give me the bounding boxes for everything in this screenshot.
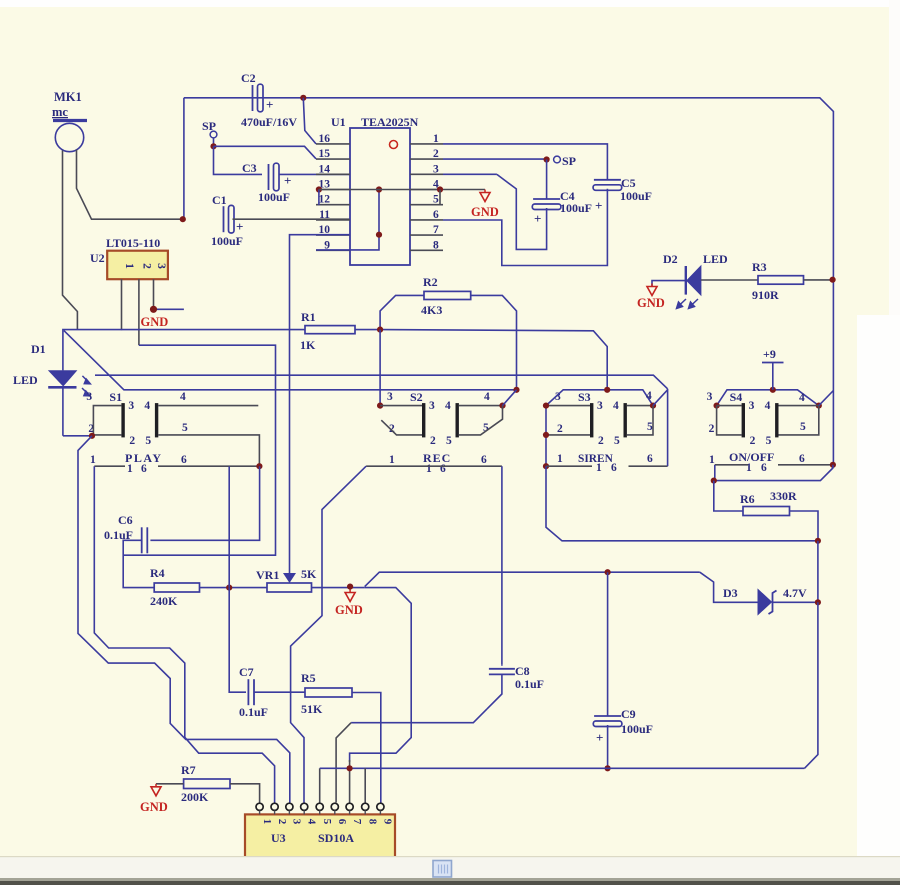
svg-text:3: 3 bbox=[597, 400, 603, 412]
switch S1 left bar bbox=[121, 403, 124, 437]
junction S1 pin5/6 bbox=[256, 463, 262, 469]
U3 pin 6 stub bbox=[334, 810, 336, 814]
svg-text:C6: C6 bbox=[118, 513, 133, 527]
U3 pin 1 stub bbox=[259, 810, 261, 814]
wire R2 left down to S2 bbox=[379, 330, 381, 406]
potentiometer VR1 body bbox=[267, 583, 312, 592]
U1 pin 16 stub bbox=[316, 143, 350, 145]
switch S4 left pad outline bbox=[717, 405, 742, 407]
U3 pin 5 stub bbox=[319, 810, 321, 814]
SP right terminal circle bbox=[554, 156, 561, 163]
junction C9 trunk bbox=[605, 765, 611, 771]
junction R3 trunk bbox=[830, 277, 836, 283]
switch S3 left pad bottom bbox=[546, 434, 590, 436]
svg-text:5: 5 bbox=[182, 422, 188, 434]
wire SP stub bbox=[213, 138, 215, 146]
wire C2 top rail bbox=[184, 98, 834, 280]
svg-text:5: 5 bbox=[614, 435, 620, 447]
svg-text:100uF: 100uF bbox=[258, 190, 290, 204]
svg-text:C2: C2 bbox=[241, 71, 256, 85]
wire R2 right bbox=[471, 295, 517, 389]
svg-text:U3: U3 bbox=[271, 831, 286, 845]
svg-text:S2: S2 bbox=[410, 390, 423, 404]
U2 pin1 lead bbox=[121, 279, 123, 330]
svg-text:+: + bbox=[266, 97, 273, 112]
junction S4 pin4 bbox=[816, 403, 822, 409]
junction S3 roof bbox=[604, 387, 610, 393]
wire D1 cathode down bbox=[62, 389, 64, 436]
wire D3 trunk down bbox=[817, 541, 819, 603]
wire R6 left bbox=[714, 481, 743, 511]
svg-text:1: 1 bbox=[389, 454, 395, 466]
U1 pin 3 stub bbox=[410, 173, 443, 175]
svg-text:LT015-110: LT015-110 bbox=[106, 236, 160, 250]
capacitor C6 bbox=[141, 527, 143, 553]
U1 pin 5 stub bbox=[410, 204, 443, 206]
resistor R7 bbox=[184, 779, 230, 789]
svg-text:240K: 240K bbox=[150, 594, 178, 608]
wire rail572 to D3 bbox=[700, 572, 758, 602]
svg-text:S4: S4 bbox=[730, 390, 743, 404]
wire C7 to R5 bbox=[254, 691, 305, 693]
switch S2 left bar bbox=[422, 403, 425, 437]
switch S1 pin5 lead bbox=[158, 435, 259, 466]
svg-text:16: 16 bbox=[319, 133, 331, 145]
ground U1 pin4 bbox=[484, 190, 486, 193]
svg-text:6: 6 bbox=[761, 462, 767, 474]
junction R6/D3 node bbox=[815, 538, 821, 544]
svg-text:4: 4 bbox=[613, 400, 619, 412]
svg-text:910R: 910R bbox=[752, 288, 779, 302]
ground R7 bbox=[155, 784, 157, 787]
svg-text:4: 4 bbox=[305, 819, 317, 825]
svg-text:6: 6 bbox=[611, 462, 617, 474]
resistor R6 bbox=[743, 507, 790, 516]
svg-text:2: 2 bbox=[598, 435, 604, 447]
svg-text:GND: GND bbox=[637, 296, 665, 310]
svg-text:2: 2 bbox=[430, 435, 436, 447]
wire mic left to rail A bbox=[63, 151, 78, 330]
wire R5 right to U3 pin9 bbox=[352, 693, 381, 803]
svg-text:470uF/16V: 470uF/16V bbox=[241, 115, 297, 129]
SP left terminal circle bbox=[210, 131, 217, 138]
svg-text:1: 1 bbox=[709, 454, 715, 466]
svg-text:6: 6 bbox=[336, 819, 348, 825]
wire trunk right segment to S4 bbox=[832, 280, 834, 465]
D2 LED arrows bbox=[677, 299, 699, 309]
U1 pin 1 stub bbox=[410, 143, 443, 145]
microphone MK1 body bbox=[55, 123, 83, 151]
resistor R3 bbox=[758, 276, 804, 285]
junction D3 trunk bbox=[815, 599, 821, 605]
U3 pin 1 circle bbox=[256, 803, 263, 810]
switch S1 pins16 line left bbox=[94, 465, 125, 467]
svg-text:2: 2 bbox=[433, 148, 439, 160]
U3 pin 4 circle bbox=[301, 803, 308, 810]
switch S3 left vertical bbox=[545, 406, 547, 467]
svg-text:1: 1 bbox=[123, 263, 135, 269]
svg-text:6: 6 bbox=[440, 463, 446, 475]
svg-text:3: 3 bbox=[749, 400, 755, 412]
wire U1 pin12-13 tie bbox=[318, 190, 320, 206]
svg-text:5: 5 bbox=[433, 194, 439, 206]
switch S3 pins16 line left bbox=[546, 465, 592, 467]
junction S3 pin4 corner bbox=[650, 403, 656, 409]
U1 pin 11 stub bbox=[316, 219, 350, 221]
U1 pin 12 stub bbox=[316, 204, 350, 206]
svg-text:GND: GND bbox=[335, 603, 363, 617]
wire S1 pin1 snake to U3 pin2 bbox=[94, 466, 274, 802]
svg-text:51K: 51K bbox=[301, 702, 323, 716]
switch S1 pin4 lead bbox=[158, 405, 258, 407]
svg-text:4: 4 bbox=[765, 400, 771, 412]
svg-text:4: 4 bbox=[180, 391, 186, 403]
switch S2 pin4 lead bbox=[459, 405, 503, 407]
switch S1 pins16 line right bbox=[158, 465, 259, 467]
svg-text:100uF: 100uF bbox=[621, 722, 653, 736]
wire C6 left to R4 bbox=[123, 540, 154, 587]
IC U3 body bbox=[245, 814, 395, 859]
wire R3 right bbox=[804, 279, 834, 281]
svg-text:U1: U1 bbox=[331, 115, 346, 129]
scrollbar track bbox=[0, 857, 900, 878]
potentiometer VR1 wiper arrow bbox=[283, 573, 296, 583]
svg-text:R7: R7 bbox=[181, 763, 196, 777]
svg-text:2: 2 bbox=[276, 819, 288, 825]
power +9 bar bbox=[762, 362, 784, 364]
svg-text:+: + bbox=[596, 730, 603, 745]
junction trunk S4 pin6 bbox=[830, 462, 836, 468]
resistor R1 bbox=[305, 326, 355, 334]
wire S2 pin1 to U3 pin4 bbox=[291, 466, 367, 802]
svg-text:100uF: 100uF bbox=[211, 234, 243, 248]
wire rail A to S3 riser bbox=[380, 330, 607, 390]
wire S3 pin6 riser bbox=[667, 389, 669, 466]
svg-text:14: 14 bbox=[319, 163, 331, 175]
wire D3 right bbox=[773, 601, 818, 603]
U3 pin 9 circle bbox=[377, 803, 384, 810]
svg-text:S1: S1 bbox=[109, 390, 122, 404]
junction S1 pin2 bbox=[89, 433, 95, 439]
switch S1 left pad outline bbox=[93, 406, 121, 435]
wire C4 bottom to U1 pin3 bbox=[497, 174, 547, 249]
svg-text:R1: R1 bbox=[301, 310, 316, 324]
wire R4 right bbox=[200, 587, 268, 589]
svg-text:4: 4 bbox=[799, 392, 805, 404]
wire rail C diag from rail A bbox=[64, 331, 517, 390]
junction S3 pin3 bbox=[543, 403, 549, 409]
svg-text:3: 3 bbox=[155, 263, 167, 269]
svg-text:D3: D3 bbox=[723, 586, 738, 600]
U3 pin 5 circle bbox=[316, 803, 323, 810]
U1 pin 9 stub bbox=[316, 249, 350, 251]
svg-text:5: 5 bbox=[800, 421, 806, 433]
ground D2 bbox=[651, 284, 653, 287]
svg-text:200K: 200K bbox=[181, 790, 209, 804]
svg-text:+: + bbox=[284, 173, 291, 188]
junction U1 internal pin10 bbox=[376, 232, 382, 238]
switch S3 roof bbox=[546, 390, 653, 406]
switch S1 right bar bbox=[155, 403, 158, 437]
U3 pin6 stub bbox=[336, 723, 351, 803]
wire C6 net riser bbox=[150, 466, 259, 540]
U3 pin 4 stub bbox=[303, 810, 305, 814]
capacitor C4 bbox=[533, 198, 560, 200]
svg-text:7: 7 bbox=[433, 224, 439, 236]
wire VR1 to rail 572 bbox=[365, 572, 700, 586]
switch S4 left pad body bbox=[717, 406, 742, 435]
svg-text:6: 6 bbox=[181, 454, 187, 466]
svg-text:2: 2 bbox=[557, 423, 563, 435]
wire R4 node down to C7 bbox=[229, 588, 246, 693]
wire U1 pin3 ext bbox=[443, 173, 497, 175]
wire S1 pin2 snake to U3 pin3 bbox=[78, 436, 290, 803]
junction U1 pin13 node bbox=[316, 186, 322, 192]
resistor R2 bbox=[424, 291, 471, 299]
wire S4 pin1 stub bbox=[714, 465, 716, 481]
switch S4 right pad outline bbox=[779, 406, 819, 435]
U1 pin1 marker circle bbox=[390, 141, 398, 149]
svg-text:4: 4 bbox=[144, 400, 150, 412]
svg-text:4: 4 bbox=[646, 390, 652, 402]
junction C1 left bbox=[180, 216, 186, 222]
U1 pin 7 stub bbox=[410, 234, 443, 236]
junction R4/VR1 bbox=[226, 585, 232, 591]
svg-text:C8: C8 bbox=[515, 664, 530, 678]
junction S4 roof bbox=[770, 387, 776, 393]
wire C9 riser bbox=[607, 572, 609, 716]
svg-text:4: 4 bbox=[484, 391, 490, 403]
svg-text:R3: R3 bbox=[752, 260, 767, 274]
capacitor C7 bbox=[247, 679, 249, 705]
svg-text:SD10A: SD10A bbox=[318, 831, 354, 845]
junction R2 rail A bbox=[377, 327, 383, 333]
wire SP down to C3 bbox=[214, 146, 263, 174]
svg-text:3: 3 bbox=[433, 163, 439, 175]
wire bottom trunk bbox=[320, 767, 805, 769]
resistor R4 bbox=[154, 583, 199, 592]
svg-text:1K: 1K bbox=[300, 338, 316, 352]
svg-text:R5: R5 bbox=[301, 671, 316, 685]
U1 pin 6 stub bbox=[410, 219, 443, 221]
wire rail B2 (siren feed) bbox=[95, 375, 668, 389]
op-amp U1 body bbox=[350, 128, 410, 265]
U3 pin 7 circle bbox=[346, 803, 353, 810]
switch S4 right bar bbox=[775, 403, 778, 437]
resistor R5 bbox=[305, 688, 352, 697]
capacitor C8 bbox=[489, 668, 515, 670]
switch S2 right bar bbox=[456, 403, 459, 437]
U3 pin 8 stub bbox=[364, 810, 366, 814]
svg-text:6: 6 bbox=[799, 453, 805, 465]
U3 pin 7 stub bbox=[349, 810, 351, 814]
svg-text:3: 3 bbox=[429, 400, 435, 412]
svg-text:+: + bbox=[534, 211, 541, 226]
switch S3 pins16 line right bbox=[629, 465, 668, 467]
svg-text:VR1: VR1 bbox=[256, 568, 279, 582]
wire U1 internal pin9 strap bbox=[316, 190, 379, 250]
svg-text:11: 11 bbox=[319, 209, 330, 221]
wire D1 to S1 pin2 bbox=[63, 435, 92, 437]
bottom window edge bbox=[0, 878, 900, 881]
svg-text:R2: R2 bbox=[423, 275, 438, 289]
junction S2 roof rail bbox=[513, 387, 519, 393]
wire R7 left bbox=[156, 783, 184, 785]
svg-text:+: + bbox=[236, 219, 243, 234]
svg-text:LED: LED bbox=[703, 252, 728, 266]
wire U2 pin3 horizontal bbox=[154, 308, 184, 310]
U3 pin 2 stub bbox=[274, 810, 276, 814]
U1 pin 8 stub bbox=[410, 249, 443, 251]
switch S3 left pad outline bbox=[546, 405, 590, 407]
junction U1 pin4-5 bbox=[437, 186, 443, 192]
wire trunk bevel to R6 rail bbox=[714, 465, 833, 481]
U3 pin 3 circle bbox=[286, 803, 293, 810]
svg-text:1: 1 bbox=[596, 462, 602, 474]
wire S3 pin1 down to R6 rail bbox=[546, 466, 818, 541]
junction VR1 right gnd bbox=[347, 584, 353, 590]
svg-text:3: 3 bbox=[387, 391, 393, 403]
wire SP to C4 top bbox=[546, 160, 548, 200]
wire R6 right bbox=[790, 511, 819, 541]
ground VR1 bbox=[349, 590, 351, 593]
wire C9 bottom bbox=[607, 725, 609, 768]
junction S3 pin2 bbox=[543, 432, 549, 438]
svg-text:D2: D2 bbox=[663, 252, 678, 266]
svg-text:TEA2025N: TEA2025N bbox=[361, 115, 419, 129]
svg-text:C7: C7 bbox=[239, 665, 254, 679]
svg-text:9: 9 bbox=[382, 819, 394, 825]
svg-text:0.1uF: 0.1uF bbox=[515, 677, 544, 691]
switch S3 pin4 lead bbox=[627, 405, 653, 407]
wire R2 left bbox=[380, 295, 424, 329]
diode D3 zener bbox=[758, 590, 772, 615]
U1 pin 14 stub bbox=[316, 173, 350, 175]
switch S4 pin4 lead bbox=[779, 405, 819, 407]
svg-text:1: 1 bbox=[426, 463, 432, 475]
svg-text:6: 6 bbox=[141, 463, 147, 475]
svg-text:1: 1 bbox=[433, 133, 439, 145]
capacitor C9 bbox=[594, 715, 621, 717]
svg-text:LED: LED bbox=[13, 373, 38, 387]
svg-text:C1: C1 bbox=[212, 193, 227, 207]
svg-text:1: 1 bbox=[127, 463, 133, 475]
svg-text:0.1uF: 0.1uF bbox=[239, 705, 268, 719]
junction S4 pin3 bbox=[714, 403, 720, 409]
svg-text:4: 4 bbox=[445, 400, 451, 412]
svg-text:7: 7 bbox=[351, 819, 363, 825]
junction U3 pin7 trunk bbox=[347, 765, 353, 771]
svg-text:3: 3 bbox=[128, 400, 134, 412]
svg-text:1: 1 bbox=[261, 819, 273, 825]
switch S4 roof bbox=[717, 390, 819, 406]
wire S3 pin4 bevel bbox=[653, 390, 668, 406]
svg-text:8: 8 bbox=[433, 239, 439, 251]
D1 LED arrows bbox=[82, 376, 90, 396]
wire S2 pin4 to roof bbox=[503, 390, 517, 406]
wire R4 node riser bbox=[228, 467, 230, 588]
junction U1 internal top bbox=[376, 186, 382, 192]
junction S2 pin3 corner bbox=[377, 403, 383, 409]
svg-text:C3: C3 bbox=[242, 161, 257, 175]
switch S3 right bar bbox=[624, 403, 627, 437]
svg-text:GND: GND bbox=[471, 205, 499, 219]
svg-text:GND: GND bbox=[141, 315, 169, 329]
svg-text:D1: D1 bbox=[31, 342, 46, 356]
wire D2 to R3 bbox=[701, 279, 758, 281]
wire C1 to U1 pin11 bbox=[233, 218, 351, 220]
U1 pin 4 stub bbox=[410, 189, 443, 191]
svg-text:R4: R4 bbox=[150, 566, 165, 580]
svg-text:330R: 330R bbox=[770, 489, 797, 503]
wire U1 pin2 to SP bbox=[443, 158, 547, 160]
wire U1 pin1 to C5 top bbox=[443, 144, 607, 180]
svg-text:5: 5 bbox=[446, 435, 452, 447]
wire D2 cathode to gnd bbox=[652, 281, 686, 287]
U3 pin 9 stub bbox=[379, 810, 381, 814]
switch S4 left bar bbox=[742, 403, 745, 437]
junction SP left bbox=[210, 143, 216, 149]
diode D2 body bbox=[687, 266, 701, 295]
U1 pin 10 stub bbox=[316, 234, 350, 236]
U3 pin 6 circle bbox=[331, 803, 338, 810]
svg-text:4K3: 4K3 bbox=[421, 303, 442, 317]
scrollbar thumb bbox=[433, 861, 452, 878]
U3 pin 2 circle bbox=[271, 803, 278, 810]
junction R6 left node bbox=[711, 478, 717, 484]
svg-text:5: 5 bbox=[145, 435, 151, 447]
svg-text:5: 5 bbox=[647, 421, 653, 433]
wire C8 bottom b bbox=[351, 709, 487, 723]
U3 pin 8 circle bbox=[362, 803, 369, 810]
svg-text:100uF: 100uF bbox=[560, 201, 592, 215]
switch S2 right pad outline bbox=[459, 406, 503, 435]
svg-text:U2: U2 bbox=[90, 251, 105, 265]
U1 pin 13 stub bbox=[316, 189, 350, 191]
wire +9 riser bbox=[772, 363, 774, 390]
switch S3 right pad outline bbox=[627, 406, 653, 435]
capacitor C1 bbox=[223, 206, 225, 232]
U1 pin 15 stub bbox=[316, 158, 350, 160]
junction S2 pin4 corner bbox=[499, 403, 505, 409]
wire C3 to U1 pin14 bbox=[279, 173, 351, 175]
svg-text:SP: SP bbox=[562, 154, 576, 168]
wire VR1 straight to pin7 path bbox=[350, 588, 412, 762]
wire SP to U1 pin15 bbox=[214, 146, 317, 159]
svg-text:+: + bbox=[595, 198, 602, 213]
U2 pin3 lead bbox=[153, 279, 155, 309]
svg-text:5K: 5K bbox=[301, 567, 317, 581]
svg-text:12: 12 bbox=[319, 194, 331, 206]
IC U2 body bbox=[107, 251, 168, 280]
junction C9 rail bbox=[605, 569, 611, 575]
svg-text:2: 2 bbox=[129, 435, 135, 447]
svg-text:3: 3 bbox=[86, 391, 92, 403]
wire trunk D3 to bottom bbox=[805, 602, 818, 768]
U1 pin 2 stub bbox=[410, 158, 443, 160]
svg-text:6: 6 bbox=[433, 209, 439, 221]
microphone MK1 top bar bbox=[53, 119, 87, 122]
U3 pin7 stub bbox=[349, 760, 351, 803]
switch S4 pins16 line right bbox=[778, 464, 833, 466]
junction S3 pin1 bbox=[543, 463, 549, 469]
svg-text:mc: mc bbox=[52, 105, 68, 119]
svg-text:1: 1 bbox=[557, 453, 563, 465]
capacitor C2 bbox=[252, 85, 254, 111]
junction SP right bbox=[544, 156, 550, 162]
wire C8 bottom to U3 pin6 bbox=[487, 674, 502, 709]
svg-text:C5: C5 bbox=[621, 176, 636, 190]
